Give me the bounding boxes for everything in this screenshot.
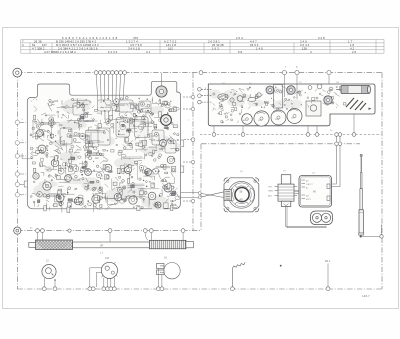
- oscillator coil: [218, 94, 228, 100]
- PCB board outline: [27, 81, 180, 209]
- module rects: [98, 100, 112, 111]
- dark ring near bump2: [161, 115, 172, 126]
- short dash-dot line y=144: [201, 143, 360, 145]
- dashed assembly line under subpanel: [200, 134, 381, 136]
- volume control P2: [88, 257, 118, 291]
- left terminal circles with leader lines: [15, 120, 75, 197]
- hanging terminal at inner border: [184, 139, 191, 141]
- svg-text:R21: R21: [45, 185, 50, 187]
- subpanel shading patches: [227, 97, 245, 106]
- svg-text:3 2 8: 3 2 8: [318, 36, 325, 40]
- bus wires transformer to box: [295, 190, 302, 193]
- trimmer C1: [230, 98, 234, 102]
- svg-text:AM: AM: [243, 119, 246, 122]
- connector mesh layer: [113, 118, 122, 121]
- svg-text:C31: C31: [102, 169, 107, 171]
- terminals on inner vertical line: [183, 95, 195, 202]
- wires down to amplifier box: [332, 136, 341, 186]
- svg-text:5 8: 5 8: [238, 50, 243, 54]
- svg-text:R117: R117: [103, 161, 109, 163]
- svg-text:1 4 8: 1 4 8: [256, 46, 263, 50]
- small arrow marker near panel right edge: [369, 108, 372, 110]
- flexible lead / coil spring: [232, 262, 246, 287]
- dark chips: [37, 200, 40, 203]
- coil L2: [248, 97, 256, 101]
- speaker terminal block: [224, 189, 232, 200]
- svg-text:3 4 6 1 8: 3 4 6 1 8: [128, 46, 140, 50]
- IF transformer dark can A: [266, 86, 274, 94]
- long wire traces: [86, 120, 98, 122]
- stubs from top border into subpanel: [284, 75, 329, 99]
- left stub: [29, 242, 36, 247]
- IF-can T1: [116, 118, 130, 138]
- transistor Q1: [237, 96, 243, 102]
- svg-text:162: 162: [168, 46, 173, 50]
- chassis dash-dot border: [17, 73, 382, 289]
- pointer rail: [73, 242, 150, 248]
- trimmer row right: [308, 86, 312, 90]
- svg-text:BLK: BLK: [268, 196, 273, 198]
- svg-text:148-7: 148-7: [362, 294, 370, 298]
- diagonal spring marks: [346, 98, 366, 110]
- svg-text:6 2 3 4: 6 2 3 4: [108, 50, 118, 54]
- subpanel mesh: [218, 95, 223, 98]
- electrolytic ring caps: [38, 145, 46, 153]
- svg-text:2 6 4: 2 6 4: [236, 36, 243, 40]
- jack / switch P3: [156, 257, 180, 291]
- svg-text:103: 103: [105, 257, 110, 260]
- svg-text:2 6: 2 6: [352, 50, 357, 54]
- IF transformer dark can B: [287, 86, 296, 95]
- svg-text:4Ω: 4Ω: [240, 198, 243, 201]
- board right tabs: [181, 140, 184, 147]
- svg-text:SW: SW: [291, 118, 294, 120]
- wire fan from terminals into board: [96, 75, 124, 125]
- speaker wires to chassis border: [181, 192, 224, 198]
- hangers from chassis line to dial parts: [37, 233, 183, 243]
- wire transformer to plug: [286, 207, 327, 228]
- svg-text:4 1: 4 1: [146, 50, 151, 54]
- terminal strip on top border: [94, 71, 126, 75]
- svg-text:SP: SP: [100, 245, 104, 248]
- corner mounting hole top-left: [13, 68, 22, 77]
- subpanel lower-left speckles: [225, 116, 227, 118]
- board left tab: [24, 181, 27, 187]
- basket windows: [235, 183, 249, 188]
- stubs and circles on dashed line: [214, 114, 354, 133]
- svg-text:OSC 2: OSC 2: [306, 184, 313, 186]
- svg-text:4 27 30846 2 1 6 4 38 2: 4 27 30846 2 1 6 4 38 2: [44, 50, 76, 54]
- corner mounting hole left-bottom: [14, 227, 21, 234]
- svg-text:C22: C22: [106, 105, 111, 107]
- basket rings: [228, 181, 255, 208]
- svg-text:4 7 308 2: 4 7 308 2: [32, 46, 45, 50]
- final density pass: [60, 140, 63, 143]
- small parts scatter: [55, 173, 59, 179]
- svg-text:R88: R88: [159, 149, 164, 151]
- parts list table: [21, 40, 384, 54]
- subpanel speckle parts: [339, 87, 341, 91]
- extra wire ladders: [46, 195, 56, 197]
- striped drum block: [149, 240, 186, 249]
- subpanel final speckles: [294, 97, 296, 99]
- pcb copper shading patches: [33, 98, 180, 210]
- bracket with hole: [306, 101, 321, 116]
- svg-text:C40: C40: [151, 140, 156, 142]
- speaker frame: [224, 178, 259, 212]
- subpanel left terminals: [198, 88, 212, 104]
- border circles top: [199, 71, 331, 75]
- scattered tiny designators: [22, 66, 340, 255]
- dark can C: [324, 96, 332, 104]
- transistor can in board notch: [156, 86, 167, 97]
- svg-text:128: 128: [302, 46, 307, 50]
- corner screws: [227, 180, 229, 182]
- svg-text:R60: R60: [172, 205, 177, 207]
- tuning drum circles: [242, 109, 302, 127]
- shield rect: [274, 85, 283, 109]
- trimmer C2: [257, 93, 261, 97]
- voice coil dome: [235, 188, 249, 202]
- electrolytic cylinder: [336, 86, 370, 94]
- svg-text:Ø4.4: Ø4.4: [325, 260, 331, 263]
- svg-text:R45: R45: [54, 101, 59, 103]
- svg-text:1 6 3: 1 6 3: [212, 46, 219, 50]
- control pot P1: [42, 260, 57, 291]
- crosshatched slider block: [36, 240, 73, 250]
- medium pads: [139, 165, 144, 170]
- extra fine scatter: [149, 132, 152, 134]
- svg-text:6V: 6V: [313, 191, 316, 194]
- table text rows: [22, 36, 357, 54]
- svg-text:R12: R12: [72, 106, 77, 108]
- IF-can T2: [135, 117, 149, 138]
- svg-text:6LT2: 6LT2: [306, 199, 312, 201]
- svg-text:GRN: GRN: [268, 191, 273, 193]
- screw with dim: [280, 260, 331, 291]
